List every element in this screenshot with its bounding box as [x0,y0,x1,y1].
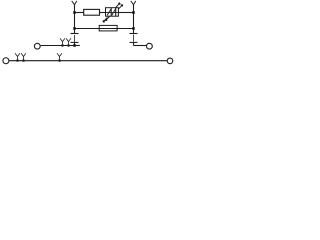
disconnect knife left (x=74) [71,34,79,46]
fuse F1 [99,25,117,31]
plug contact Y top-left [72,1,77,5]
wire middle level left [41,45,75,47]
wire resistor to LED [100,12,107,14]
LED V1 (bidirectional, anti-parallel pair) [103,3,123,22]
terminal circle middle-left [34,43,40,49]
disconnect knife right (x=133) [130,34,138,46]
wire LED to right vertical [118,12,133,14]
node junction (133,28) [132,27,135,30]
node junction (74,45.5) [73,44,76,47]
bottom bus wire [9,60,167,62]
wire to fuse [75,28,100,30]
plug fork on bus x=17 [15,53,20,61]
node junction (133,12) [132,11,135,14]
terminal circle bottom-right [167,58,173,64]
wire middle level right [134,45,147,47]
plug fork on bus x=23 [21,53,26,61]
plug contact Y top-right [131,1,136,5]
wire to resistor [75,12,84,14]
wire fuse to right vertical [117,28,133,30]
terminal circle middle-right [147,43,153,49]
plug fork on middle wire x=62 [60,38,65,46]
node junction (74,28) [73,27,76,30]
wire vertical right x=133 [133,5,135,34]
plug fork on bus x=59 [57,53,62,61]
wire stub right of junction [75,45,80,47]
terminal circle bottom-left [3,58,9,64]
plug fork on middle wire x=68 [66,38,71,46]
wire vertical left x=74 [74,5,76,34]
resistor R1 [84,9,100,15]
node junction (74,12) [73,11,76,14]
